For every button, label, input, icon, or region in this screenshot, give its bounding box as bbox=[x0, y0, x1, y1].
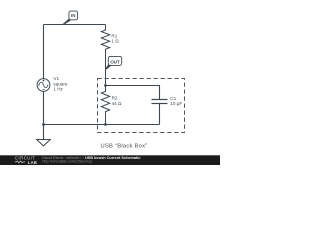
svg-text:1 Ω: 1 Ω bbox=[111, 39, 119, 44]
capacitor C1 bbox=[152, 100, 168, 125]
node junction at V1 bottom bbox=[42, 123, 45, 126]
node junction top of R2 bbox=[104, 84, 107, 87]
svg-text:IN: IN bbox=[71, 13, 75, 18]
resistor R1 bbox=[101, 25, 109, 86]
svg-text:OUT: OUT bbox=[110, 59, 120, 64]
footer bar bbox=[0, 155, 220, 165]
net flag OUT bbox=[105, 56, 122, 69]
svg-text:http://circuitlab.com/c/5azmcp: http://circuitlab.com/c/5azmcp bbox=[42, 159, 92, 163]
svg-text:10 µF: 10 µF bbox=[170, 101, 182, 106]
label R1 value bbox=[111, 34, 119, 44]
node junction bottom of R2 bbox=[104, 123, 107, 126]
logo LAB with resistor zigzag bbox=[15, 160, 37, 165]
resistor R2 bbox=[101, 86, 109, 125]
svg-text:LAB: LAB bbox=[28, 160, 37, 165]
svg-text:44 Ω: 44 Ω bbox=[112, 101, 122, 106]
label C1 value bbox=[170, 96, 182, 106]
wire V1 to ground bbox=[43, 91, 45, 139]
wire to C1 top bbox=[106, 86, 160, 100]
dashed box USB black box bbox=[98, 79, 185, 133]
net flag IN bbox=[62, 11, 78, 25]
svg-text:USB “Black Box”: USB “Black Box” bbox=[101, 144, 148, 150]
label R2 value bbox=[112, 96, 122, 106]
ground bbox=[37, 140, 51, 146]
wire bottom horizontal bbox=[44, 124, 160, 126]
voltage source V1 bbox=[37, 79, 50, 92]
wire top horizontal bbox=[44, 24, 106, 26]
wire left vertical (top wire to V1) bbox=[43, 25, 45, 79]
label V1 value bbox=[53, 76, 67, 91]
svg-text:1 Hz: 1 Hz bbox=[53, 87, 63, 92]
